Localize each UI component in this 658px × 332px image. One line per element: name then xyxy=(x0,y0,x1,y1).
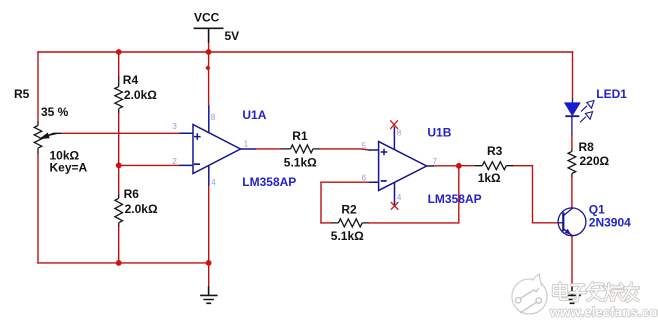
wire top rail down to LED1 anode xyxy=(572,52,574,98)
svg-text:1kΩ: 1kΩ xyxy=(478,171,501,185)
watermark logo circle (elecfans) xyxy=(512,274,547,314)
op-amp U1A plus/minus xyxy=(194,133,201,140)
svg-text:3: 3 xyxy=(172,122,177,131)
wire U1A output to R1 xyxy=(256,148,280,150)
junction U1B output node xyxy=(456,163,462,169)
wire U1B pin6 feedback left segment xyxy=(321,181,369,183)
svg-text:U1B: U1B xyxy=(427,126,451,140)
svg-text:2N3904: 2N3904 xyxy=(589,215,631,229)
wire R4/R6 divider column xyxy=(118,52,120,263)
svg-text:R8: R8 xyxy=(579,140,595,154)
no-connect X on U1B pin 8 xyxy=(390,120,398,209)
svg-text:LED1: LED1 xyxy=(596,87,627,101)
wire U1A pin4 down to ground rail xyxy=(208,186,210,287)
wire R3 to Q1 base xyxy=(513,166,558,223)
wire R2 to output node vertical xyxy=(369,166,459,223)
wire VCC stem to rail xyxy=(208,43,210,52)
svg-text:5.1kΩ: 5.1kΩ xyxy=(284,156,317,170)
svg-text:35 %: 35 % xyxy=(41,105,69,119)
potentiometer R5 wiper arrow xyxy=(41,133,61,138)
power symbol VCC xyxy=(194,28,224,43)
junction divider/U1A pin2 xyxy=(116,163,122,169)
op-amp U1B triangle xyxy=(369,127,434,205)
wire pot wiper to U1A pin3 xyxy=(61,132,180,134)
resistor R4 xyxy=(115,76,123,112)
svg-text:R2: R2 xyxy=(341,203,357,217)
svg-text:Key=A: Key=A xyxy=(50,161,88,175)
wire Q1 emitter to ground xyxy=(571,235,573,286)
wire divider node to U1A pin2 xyxy=(119,164,180,166)
junction rail/VCC xyxy=(206,49,212,55)
ground symbol (left) xyxy=(200,286,218,303)
svg-text:LM358AP: LM358AP xyxy=(242,175,296,189)
junction bottom rail/R6 xyxy=(116,260,122,266)
op-amp U1B output stub xyxy=(427,165,434,167)
wire feedback bottom to R2 xyxy=(321,222,331,224)
svg-text:2: 2 xyxy=(172,157,177,166)
wire node to R3 xyxy=(459,165,475,167)
svg-text:5: 5 xyxy=(362,142,367,151)
wire rail down to U1A pin8 xyxy=(208,52,210,106)
wire R1 to U1B pin5 xyxy=(319,149,369,150)
svg-text:7: 7 xyxy=(433,157,438,166)
svg-text:U1A: U1A xyxy=(242,108,266,122)
svg-text:4: 4 xyxy=(397,193,402,202)
svg-text:6: 6 xyxy=(362,173,367,182)
svg-text:R3: R3 xyxy=(487,144,503,158)
svg-text:8: 8 xyxy=(211,113,216,122)
no-connect X on U1B pin 4 xyxy=(391,202,398,210)
virtual connection diamond on VCC net xyxy=(205,65,210,70)
svg-text:R5: R5 xyxy=(14,87,30,101)
svg-text:5.1kΩ: 5.1kΩ xyxy=(331,229,364,243)
wire left vertical (pot branch) xyxy=(37,52,39,263)
resistor R3 xyxy=(475,162,513,170)
op-amp U1B input pin stubs xyxy=(369,150,379,182)
op-amp U1B plus/minus xyxy=(381,149,388,156)
LED LED1 symbol xyxy=(565,98,594,134)
svg-text:www.elecfans.com: www.elecfans.com xyxy=(549,305,658,320)
svg-text:1: 1 xyxy=(244,140,249,149)
svg-text:220Ω: 220Ω xyxy=(580,154,610,168)
svg-text:2.0kΩ: 2.0kΩ xyxy=(124,88,157,102)
wire bottom ground rail xyxy=(38,262,209,264)
svg-text:R6: R6 xyxy=(124,187,140,201)
transistor Q1 (NPN 2N3904) xyxy=(558,208,586,236)
wire top power rail xyxy=(38,51,573,53)
resistor R2 xyxy=(331,219,369,227)
junction bottom rail/ground xyxy=(206,260,212,266)
op-amp U1A triangle xyxy=(180,106,257,186)
LED1 light arrows xyxy=(580,106,587,123)
svg-text:VCC: VCC xyxy=(194,11,220,25)
svg-text:R1: R1 xyxy=(292,129,308,143)
resistor R8 xyxy=(568,149,576,177)
wire R8 to Q1 collector xyxy=(571,177,573,208)
watermark text dian zi fa shao you (embossed approximation) xyxy=(554,283,639,301)
wire LED1 cathode to R8 xyxy=(571,135,573,150)
op-amp U1A input pin stubs xyxy=(180,133,194,165)
wire feedback vertical xyxy=(320,182,322,223)
op-amp U1A power pin stubs 8/4 xyxy=(208,106,210,186)
junction rail/R4 xyxy=(116,49,122,55)
svg-text:LM358AP: LM358AP xyxy=(428,192,482,206)
resistor R6 xyxy=(115,194,123,227)
wire U1B output to node xyxy=(434,165,459,167)
svg-text:5V: 5V xyxy=(225,29,240,43)
potentiometer R5 body xyxy=(34,122,42,154)
svg-text:8: 8 xyxy=(397,129,402,138)
svg-text:2.0kΩ: 2.0kΩ xyxy=(125,202,158,216)
op-amp U1B power pin stubs 8/4 xyxy=(393,127,395,205)
svg-text:4: 4 xyxy=(211,178,216,187)
ground symbol (right, under Q1) xyxy=(563,287,581,304)
svg-text:R4: R4 xyxy=(123,73,139,87)
op-amp U1A output stub xyxy=(241,148,257,150)
resistor R1 xyxy=(280,145,319,153)
